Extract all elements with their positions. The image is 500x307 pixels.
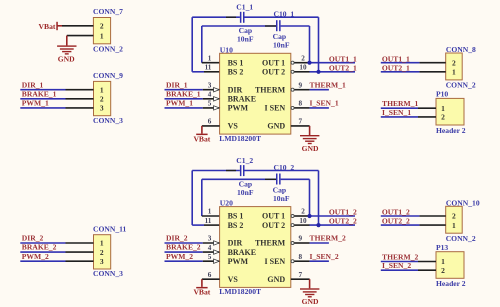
svg-text:OUT2_1: OUT2_1 (329, 63, 357, 72)
svg-text:GND: GND (267, 275, 285, 284)
svg-text:BRAKE_1: BRAKE_1 (166, 89, 201, 98)
svg-text:C1_2: C1_2 (236, 156, 253, 165)
svg-text:CONN_3: CONN_3 (93, 269, 123, 278)
svg-text:CONN_11: CONN_11 (93, 224, 127, 233)
svg-text:3: 3 (100, 104, 104, 113)
svg-text:GND: GND (58, 54, 75, 63)
svg-text:DIR: DIR (228, 239, 243, 248)
svg-text:Header 2: Header 2 (436, 126, 466, 135)
svg-text:I SEN: I SEN (265, 257, 286, 266)
svg-text:CONN_2: CONN_2 (446, 81, 476, 90)
svg-text:OUT 1: OUT 1 (262, 58, 285, 67)
svg-text:CONN_9: CONN_9 (93, 71, 123, 80)
svg-text:7: 7 (299, 271, 303, 279)
svg-text:6: 6 (208, 118, 212, 126)
svg-text:THERM_1: THERM_1 (382, 99, 418, 108)
svg-text:4: 4 (208, 91, 212, 99)
svg-text:PWM_1: PWM_1 (22, 99, 49, 108)
svg-text:2: 2 (301, 54, 305, 62)
svg-text:PWM_1: PWM_1 (166, 99, 193, 108)
svg-text:5: 5 (208, 253, 212, 261)
svg-text:THERM: THERM (255, 85, 286, 94)
svg-text:DIR_1: DIR_1 (166, 80, 188, 89)
svg-text:PWM_2: PWM_2 (166, 252, 193, 261)
svg-text:OUT1_2: OUT1_2 (329, 208, 357, 217)
svg-text:CONN_2: CONN_2 (446, 234, 476, 243)
svg-text:VBat: VBat (39, 22, 56, 31)
svg-text:DIR_2: DIR_2 (22, 234, 44, 243)
svg-text:1: 1 (100, 31, 104, 40)
svg-text:CONN_7: CONN_7 (93, 7, 123, 16)
svg-text:GND: GND (302, 144, 319, 153)
svg-text:BRAKE: BRAKE (228, 95, 256, 104)
svg-text:2: 2 (441, 266, 445, 275)
svg-text:BRAKE: BRAKE (228, 248, 256, 257)
svg-text:VBat: VBat (193, 288, 210, 297)
svg-text:GND: GND (302, 297, 319, 306)
svg-text:LMD18200T: LMD18200T (219, 134, 261, 143)
svg-text:5: 5 (208, 100, 212, 108)
svg-text:2: 2 (100, 95, 104, 104)
svg-text:10nF: 10nF (273, 41, 290, 50)
svg-text:10nF: 10nF (273, 194, 290, 203)
svg-text:2: 2 (100, 248, 104, 257)
svg-text:DIR_1: DIR_1 (22, 80, 44, 89)
svg-text:8: 8 (299, 253, 303, 261)
svg-text:BRAKE_2: BRAKE_2 (166, 243, 201, 252)
svg-text:OUT2_1: OUT2_1 (382, 63, 410, 72)
svg-text:3: 3 (208, 235, 212, 243)
svg-text:I_SEN_1: I_SEN_1 (382, 108, 411, 117)
svg-text:3: 3 (100, 257, 104, 266)
svg-text:1: 1 (100, 85, 104, 94)
svg-text:VBat: VBat (193, 134, 210, 143)
svg-text:9: 9 (299, 81, 303, 89)
svg-text:THERM: THERM (255, 239, 286, 248)
svg-text:BS 2: BS 2 (228, 68, 244, 77)
svg-text:OUT 2: OUT 2 (262, 68, 285, 77)
svg-text:C1_1: C1_1 (236, 3, 253, 12)
svg-text:BRAKE_1: BRAKE_1 (22, 89, 57, 98)
svg-text:THERM_1: THERM_1 (310, 80, 346, 89)
svg-text:Header 2: Header 2 (436, 279, 466, 288)
svg-text:10nF: 10nF (237, 188, 254, 197)
svg-text:GND: GND (267, 122, 285, 131)
svg-text:PWM: PWM (228, 104, 249, 113)
svg-text:11: 11 (205, 64, 212, 72)
svg-text:LMD18200T: LMD18200T (219, 287, 261, 296)
svg-text:I_SEN_2: I_SEN_2 (310, 252, 339, 261)
svg-text:OUT 2: OUT 2 (262, 221, 285, 230)
svg-text:2: 2 (452, 212, 456, 221)
svg-text:OUT1_2: OUT1_2 (382, 208, 410, 217)
svg-text:4: 4 (208, 244, 212, 252)
svg-text:DIR: DIR (228, 85, 243, 94)
svg-text:I_SEN_1: I_SEN_1 (310, 99, 339, 108)
svg-text:THERM_2: THERM_2 (310, 234, 346, 243)
svg-text:OUT1_1: OUT1_1 (382, 54, 410, 63)
svg-text:1: 1 (452, 68, 456, 77)
svg-text:9: 9 (299, 235, 303, 243)
svg-text:P10: P10 (436, 90, 448, 99)
svg-text:1: 1 (208, 208, 212, 216)
svg-text:1: 1 (100, 239, 104, 248)
svg-text:THERM_2: THERM_2 (382, 253, 418, 262)
svg-text:CONN_3: CONN_3 (93, 116, 123, 125)
svg-text:BS 2: BS 2 (228, 221, 244, 230)
svg-text:DIR_2: DIR_2 (166, 234, 188, 243)
svg-text:10: 10 (299, 64, 307, 72)
svg-text:P13: P13 (436, 243, 448, 252)
svg-text:2: 2 (452, 58, 456, 67)
svg-text:1: 1 (452, 221, 456, 230)
svg-text:2: 2 (100, 22, 104, 31)
svg-text:I SEN: I SEN (265, 104, 286, 113)
svg-text:VS: VS (228, 275, 239, 284)
svg-text:C10_1: C10_1 (274, 10, 295, 19)
svg-text:VS: VS (228, 122, 239, 131)
svg-text:10nF: 10nF (237, 35, 254, 44)
svg-text:PWM_2: PWM_2 (22, 252, 49, 261)
svg-text:10: 10 (299, 217, 307, 225)
svg-text:BS 1: BS 1 (228, 58, 244, 67)
svg-text:7: 7 (299, 118, 303, 126)
svg-text:OUT2_2: OUT2_2 (382, 217, 410, 226)
svg-text:3: 3 (208, 81, 212, 89)
svg-text:8: 8 (299, 100, 303, 108)
svg-text:6: 6 (208, 271, 212, 279)
svg-text:1: 1 (441, 104, 445, 113)
svg-text:BS 1: BS 1 (228, 212, 244, 221)
svg-text:1: 1 (441, 257, 445, 266)
svg-text:BRAKE_2: BRAKE_2 (22, 243, 57, 252)
svg-text:OUT 1: OUT 1 (262, 212, 285, 221)
svg-text:C10_2: C10_2 (274, 163, 295, 172)
svg-text:11: 11 (205, 217, 212, 225)
svg-text:OUT2_2: OUT2_2 (329, 217, 357, 226)
svg-text:I_SEN_2: I_SEN_2 (382, 261, 411, 270)
svg-text:2: 2 (441, 113, 445, 122)
svg-text:PWM: PWM (228, 257, 249, 266)
svg-text:2: 2 (301, 208, 305, 216)
svg-text:CONN_2: CONN_2 (93, 45, 123, 54)
svg-text:OUT1_1: OUT1_1 (329, 54, 357, 63)
svg-text:1: 1 (208, 54, 212, 62)
